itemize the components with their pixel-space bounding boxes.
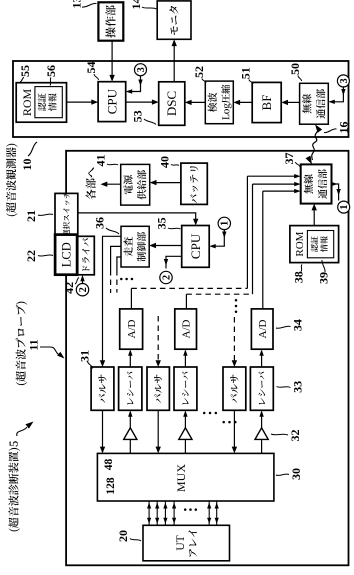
wire 操作部 to CPU [111, 41, 113, 79]
走査制御部 36 box [121, 226, 149, 267]
wire 検波 to DSC [188, 101, 205, 103]
dashed control to パルサ3 [233, 317, 235, 363]
A/D 2 box [175, 309, 197, 349]
connector 2 near CPU35 [160, 271, 172, 283]
wire CPU35 to 走査制御部 [152, 245, 181, 247]
BF 51 box [252, 82, 281, 122]
svg-text:50: 50 [288, 63, 302, 75]
wire パルサ3 to MUX [233, 410, 235, 450]
wire 50 to BF [284, 101, 299, 103]
amplifier 1 [124, 428, 137, 440]
モニタ 14 box [157, 1, 191, 39]
svg-text:3: 3 [339, 78, 350, 83]
svg-text:35: 35 [155, 217, 169, 229]
amplifier 3 [255, 428, 268, 440]
dashed control stub 3 [117, 257, 121, 270]
ROM 55 box [16, 83, 66, 123]
無線通信部 50 box [300, 83, 329, 124]
wire A/D1 output [130, 288, 132, 309]
svg-text:13: 13 [70, 0, 84, 9]
A/D 1 box [120, 309, 143, 349]
wire 走査制御部 to パルサ1 (solid control) [103, 236, 122, 363]
svg-text:56: 56 [44, 65, 58, 77]
leader arrow for 5 [17, 427, 27, 436]
wire 3 to CPU [129, 76, 141, 92]
dashed control stub 2 [111, 246, 121, 270]
wire MUX to amp2 [184, 439, 186, 453]
パルサ 3 box [223, 367, 246, 410]
wire ROM to CPU [67, 101, 96, 103]
wire A/D2 output [185, 294, 187, 309]
パルサ 2 box [147, 367, 169, 410]
dots between amplifiers [222, 421, 225, 424]
connector 3 near CPU [135, 64, 147, 76]
dots between channel groups [203, 412, 206, 415]
wire MUX-UT array 5 [208, 501, 210, 525]
操作部 13 box [98, 2, 123, 40]
inner box 認証情報 39 [307, 231, 333, 258]
svg-text:40: 40 [158, 156, 172, 168]
svg-text:42: 42 [62, 282, 76, 294]
wire amp2 to レシーバ [184, 414, 186, 428]
wire MUX-UT array 1 [148, 501, 150, 525]
svg-text:CPU: CPU [104, 88, 119, 114]
選択スイッチ 21 box [55, 193, 78, 235]
svg-text:31: 31 [78, 350, 92, 362]
frame: ultrasound probe (超音波プローブ) 11 [66, 151, 348, 566]
svg-text:22: 22 [24, 250, 38, 262]
dots near control stubs [120, 278, 123, 281]
レシーバ 1 box [119, 367, 142, 410]
svg-text:37: 37 [282, 153, 296, 165]
A/D 3 box [251, 309, 273, 349]
svg-text:UT: UT [175, 535, 187, 550]
wire MUX-UT array 4 [173, 501, 175, 525]
svg-text:20: 20 [116, 530, 130, 542]
レシーバ 33 box [250, 367, 273, 410]
svg-text:30: 30 [289, 468, 303, 480]
svg-text:33: 33 [291, 381, 305, 393]
leader for 10 [28, 142, 37, 156]
wire 2 to ドライバ [82, 278, 84, 284]
dots between MUX-UT wires [184, 508, 187, 511]
dashed control to パルサ2 [157, 316, 159, 363]
wire MUX to amp3 [261, 439, 263, 453]
svg-text:14: 14 [129, 0, 143, 10]
wire パルサ2 to MUX [157, 410, 159, 450]
wire 3 to 無線通信部50 [332, 87, 344, 102]
inner box 認証情報 56 [35, 87, 62, 118]
wire MUX-UT array 2 [156, 501, 158, 525]
svg-text:21: 21 [24, 210, 38, 222]
svg-text:38: 38 [292, 271, 306, 283]
wire ROM38 to 通信部37 [313, 207, 315, 226]
svg-text:48: 48 [103, 459, 115, 471]
svg-text:52: 52 [192, 66, 206, 78]
svg-text:51: 51 [239, 67, 253, 79]
svg-text:128: 128 [105, 477, 117, 495]
connector 2 near ドライバ [76, 284, 88, 296]
svg-text:34: 34 [291, 319, 305, 331]
svg-text:11: 11 [27, 339, 41, 350]
svg-text:53: 53 [131, 110, 145, 122]
svg-text:CPU: CPU [188, 233, 203, 259]
svg-text:A/D: A/D [180, 319, 192, 338]
connector 1 near 通信部37 [338, 201, 350, 213]
svg-text:DSC: DSC [164, 91, 179, 116]
connector 3 near 無線通信部50 [337, 75, 349, 87]
svg-text:MUX: MUX [174, 464, 188, 492]
検波/Log圧縮 52 box [205, 81, 233, 124]
svg-text:BF: BF [259, 95, 274, 111]
svg-text:ROM: ROM [20, 89, 34, 117]
wire 1 to CPU35 [212, 230, 224, 247]
svg-text:3: 3 [136, 67, 147, 72]
wire BF to 検波 [236, 101, 252, 103]
wire CPU35 to 2 [166, 256, 182, 268]
frame: ultrasound observer unit (超音波観測器) 10 [13, 61, 349, 137]
wire レシーバ1 to A/D [129, 352, 131, 367]
svg-text:36: 36 [93, 217, 107, 229]
wire MUX-UT array 6 [216, 501, 218, 525]
LCD 22 box [55, 235, 77, 275]
wireless link 16 between 通信部50 and 通信部37 [312, 127, 318, 161]
wire amp1 to レシーバ [129, 414, 131, 428]
CPU 35 box [182, 226, 210, 268]
label (超音波観測器) [6, 144, 18, 216]
svg-text:16: 16 [337, 122, 351, 134]
wire CPU to DSC [126, 101, 156, 103]
DSC 53 box [159, 82, 185, 126]
svg-text:39: 39 [317, 272, 331, 284]
svg-text:2: 2 [161, 275, 172, 280]
svg-text:41: 41 [94, 155, 108, 167]
バッテリ 40 box [181, 163, 207, 204]
wire 選択スイッチ to CPU35 [78, 213, 196, 222]
wire レシーバ2 to A/D [184, 352, 186, 367]
wire レシーバ3 to A/D [261, 352, 263, 367]
svg-text:A/D: A/D [126, 319, 138, 338]
wire 37 to 1 [332, 184, 339, 201]
wire DSC to モニタ [173, 43, 175, 82]
wire パルサ1 to MUX [102, 410, 104, 450]
ドライバ 42 box [78, 236, 95, 275]
パルサ 31 box [91, 367, 114, 410]
svg-text:1: 1 [220, 221, 231, 226]
svg-text:55: 55 [18, 65, 32, 77]
CPU 54 box [98, 82, 126, 122]
wire バッテリ to 電源供給部 [153, 182, 181, 184]
svg-text:54: 54 [84, 62, 98, 74]
svg-text:A/D: A/D [257, 319, 269, 338]
label 各部へ [86, 168, 96, 200]
svg-text:32: 32 [288, 430, 302, 442]
leader for 11 [40, 347, 59, 355]
label (超音波プローブ) [16, 302, 28, 385]
UTアレイ 20 box [143, 525, 230, 561]
電源供給部 41 box [121, 164, 150, 205]
svg-text:ROM: ROM [294, 231, 306, 256]
amplifier 2 [179, 428, 192, 440]
dots near A/D outputs [235, 311, 238, 314]
wire MUX-UT array 3 [164, 501, 166, 525]
wire amp3 to レシーバ [261, 414, 263, 428]
MUX 30 box [97, 453, 274, 501]
wire A/D3 output [262, 191, 264, 309]
svg-text:LCD: LCD [59, 242, 73, 267]
wire 各部へ arrow [104, 183, 121, 185]
wire MUX to amp1 [129, 439, 131, 453]
svg-text:2: 2 [78, 287, 89, 292]
svg-text:10: 10 [20, 159, 34, 171]
connector 1 near CPU35 [218, 217, 230, 229]
レシーバ 2 box [174, 367, 197, 410]
無線通信部 37 box [301, 164, 332, 203]
ROM 38 box [290, 226, 339, 263]
label (超音波診断装置)5 [8, 441, 20, 531]
svg-text:1: 1 [339, 205, 350, 210]
